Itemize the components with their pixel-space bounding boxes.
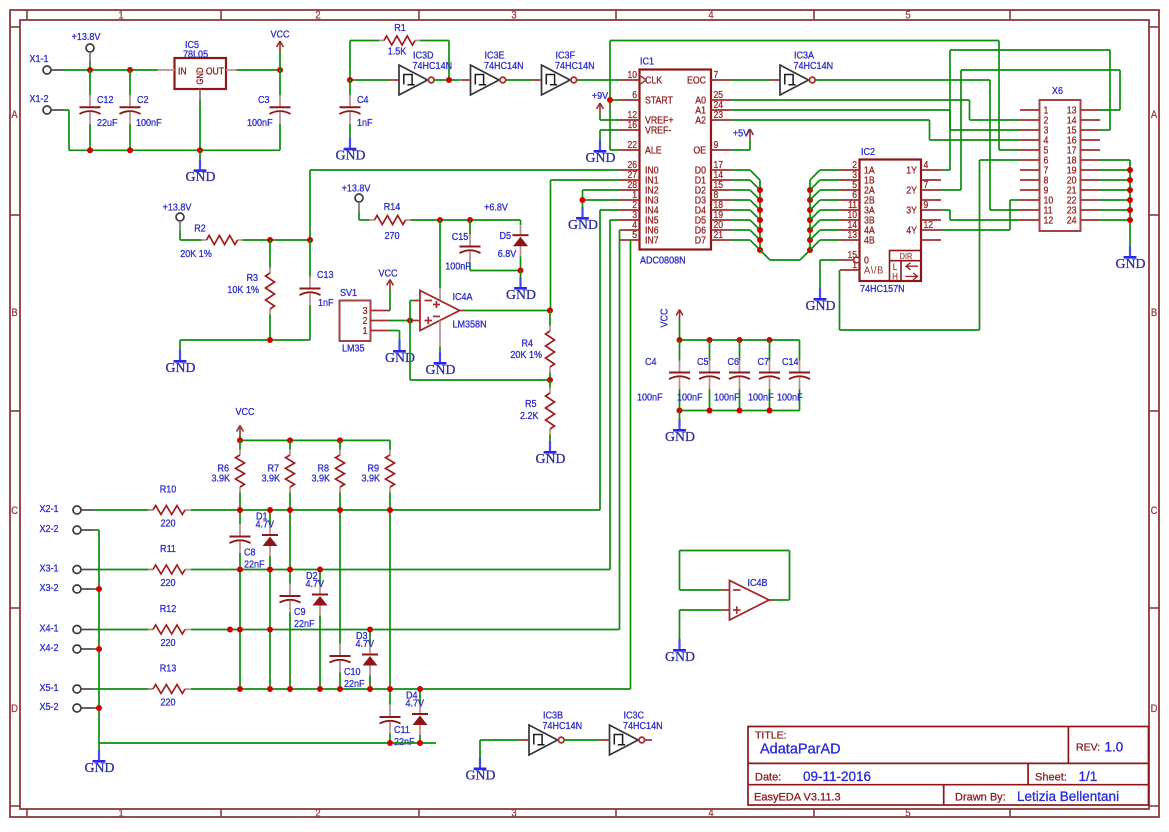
junction bbox=[387, 686, 393, 692]
svg-text:C4: C4 bbox=[645, 356, 657, 368]
junction bbox=[307, 237, 313, 243]
resistor R3 bbox=[269, 240, 271, 268]
IC1 pin 7 EOC bbox=[711, 79, 731, 81]
wire IC3D out bbox=[434, 79, 460, 81]
svg-text:Letizia Bellentani: Letizia Bellentani bbox=[1017, 789, 1119, 804]
svg-text:4.7V: 4.7V bbox=[356, 638, 375, 650]
IC2 pin 13 4B bbox=[840, 239, 860, 241]
wire col270 lower bbox=[269, 570, 271, 690]
svg-text:+13.8V: +13.8V bbox=[163, 202, 192, 214]
svg-text:EasyEDA V3.11.3: EasyEDA V3.11.3 bbox=[754, 792, 841, 804]
ground bbox=[1129, 246, 1131, 257]
X6 pin 18 bbox=[1081, 159, 1101, 161]
SV1 pin 1 bbox=[371, 330, 391, 332]
resistor R11 220 bbox=[93, 569, 152, 571]
wire X2-2 column to gnd bbox=[93, 529, 99, 531]
junction bbox=[807, 217, 813, 223]
terminal X1-1 bbox=[43, 66, 51, 74]
svg-text:74HC14N: 74HC14N bbox=[413, 60, 453, 72]
SV1 pin 3 bbox=[371, 310, 391, 312]
svg-text:12: 12 bbox=[1044, 215, 1054, 227]
terminal X5-2 bbox=[73, 704, 81, 712]
svg-text:SV1: SV1 bbox=[340, 287, 357, 299]
svg-text:1Y: 1Y bbox=[906, 165, 917, 177]
wire IN4 riser bbox=[600, 209, 620, 211]
capacitor C6 (decoupling) bbox=[739, 340, 741, 361]
power flag +13.8V bbox=[86, 44, 94, 52]
svg-text:X6: X6 bbox=[1052, 85, 1064, 97]
wire X6 pins 18-24 to gnd bbox=[1100, 159, 1130, 161]
frame tick bbox=[418, 10, 420, 20]
svg-text:VCC: VCC bbox=[659, 308, 671, 327]
svg-text:R12: R12 bbox=[160, 603, 177, 615]
label X3-1 bbox=[40, 563, 59, 575]
junction bbox=[1127, 217, 1133, 223]
IC2 pin nc bbox=[921, 219, 941, 221]
capacitor C13 bbox=[309, 240, 311, 277]
svg-text:R5: R5 bbox=[525, 398, 537, 410]
svg-text:VCC: VCC bbox=[235, 406, 254, 418]
svg-text:1.5K: 1.5K bbox=[388, 46, 407, 58]
IC1 pin 17 D0 bbox=[711, 169, 731, 171]
svg-text:7: 7 bbox=[924, 179, 929, 190]
svg-text:100nF: 100nF bbox=[136, 117, 162, 129]
svg-text:C15: C15 bbox=[452, 231, 469, 243]
junction bbox=[267, 567, 273, 573]
IC2 pin 11 3A bbox=[840, 209, 860, 211]
IC1 pin 16 VREF- bbox=[620, 129, 640, 131]
wire A0 to X6 pin2 bbox=[731, 99, 970, 101]
junction bbox=[267, 627, 273, 633]
svg-text:9: 9 bbox=[714, 139, 719, 150]
title block bbox=[748, 727, 1149, 806]
svg-text:24: 24 bbox=[1067, 215, 1077, 227]
junction bbox=[227, 627, 233, 633]
frame tick bbox=[10, 805, 20, 807]
capacitor C14 (decoupling) bbox=[799, 340, 801, 361]
svg-text:4B: 4B bbox=[864, 235, 875, 247]
ground bbox=[179, 350, 181, 361]
junction bbox=[417, 740, 423, 746]
svg-text:74HC14N: 74HC14N bbox=[484, 60, 524, 72]
svg-text:D: D bbox=[1151, 703, 1158, 715]
IC2 DIR legend box bbox=[890, 251, 922, 282]
svg-text:H: H bbox=[892, 271, 898, 282]
svg-text:9: 9 bbox=[924, 199, 929, 210]
junction bbox=[518, 268, 524, 274]
power flag bbox=[679, 310, 681, 320]
svg-text:GND: GND bbox=[336, 148, 366, 163]
svg-text:D: D bbox=[11, 703, 18, 715]
wire IC4B +in to gnd bbox=[680, 609, 723, 611]
terminal X2-2 bbox=[73, 526, 81, 534]
svg-text:7: 7 bbox=[714, 69, 719, 80]
wire row bbox=[191, 629, 620, 631]
capacitor C10 bbox=[339, 644, 341, 655]
svg-text:2: 2 bbox=[315, 10, 321, 22]
svg-text:C13: C13 bbox=[317, 269, 334, 281]
IC2 pin nc bbox=[921, 179, 941, 181]
IC2 pin 1 A/B select bbox=[840, 269, 860, 271]
junction bbox=[757, 197, 763, 203]
IC4B -in pin bbox=[722, 589, 730, 591]
IC1 pin 2 IN4 bbox=[620, 209, 640, 211]
X6 pin 15 bbox=[1081, 129, 1101, 131]
ground bbox=[398, 340, 400, 351]
svg-text:LM358N: LM358N bbox=[453, 319, 487, 331]
svg-text:B: B bbox=[11, 307, 17, 319]
wire R6 column bbox=[239, 493, 241, 511]
op IC1 ADC0808N box bbox=[640, 70, 712, 250]
IC2 pin 2 1A bbox=[840, 169, 860, 171]
wire gnd rail (decoupling) bbox=[680, 410, 800, 412]
svg-text:C3: C3 bbox=[258, 94, 270, 106]
inverter IC3A bbox=[780, 65, 809, 95]
junction bbox=[287, 507, 293, 513]
svg-text:CLK: CLK bbox=[645, 75, 663, 87]
capacitor C4 (timing) bbox=[349, 80, 351, 95]
IC4A V- mark bbox=[433, 315, 440, 317]
terminal X5-1 bbox=[73, 685, 81, 693]
svg-text:4: 4 bbox=[924, 159, 929, 170]
wire 1Y to X6 pin15 bbox=[941, 169, 950, 171]
wire IN6 riser bbox=[619, 230, 621, 630]
wire bbox=[199, 100, 201, 150]
IC2 pin nc bbox=[921, 239, 941, 241]
svg-text:GND: GND bbox=[466, 767, 496, 782]
junction bbox=[1127, 207, 1133, 213]
junction bbox=[237, 437, 243, 443]
junction bbox=[197, 147, 203, 153]
label X2-2 bbox=[40, 523, 59, 535]
junction bbox=[417, 686, 423, 692]
svg-text:74HC14N: 74HC14N bbox=[794, 60, 834, 72]
wire col240 lower bbox=[239, 570, 241, 690]
frame row letter bbox=[11, 505, 18, 517]
svg-text:C14: C14 bbox=[782, 356, 799, 368]
svg-text:3.9K: 3.9K bbox=[211, 473, 230, 485]
svg-text:R3: R3 bbox=[246, 272, 258, 284]
svg-text:74HC14N: 74HC14N bbox=[623, 720, 663, 732]
wire VREF- to gnd bbox=[600, 129, 620, 131]
ground bbox=[98, 750, 100, 761]
wire SV1 pin1 to gnd bbox=[390, 330, 400, 332]
op-amp IC4B bbox=[730, 581, 770, 621]
zener diode D3 bbox=[369, 630, 371, 645]
svg-text:3Y: 3Y bbox=[906, 205, 917, 217]
inverter IC3C bbox=[610, 725, 639, 755]
svg-text:EOC: EOC bbox=[687, 75, 706, 87]
IC2 pin 12 4Y bbox=[921, 229, 941, 231]
svg-text:74HC14N: 74HC14N bbox=[543, 720, 583, 732]
IC2 pin 10 3B bbox=[840, 219, 860, 221]
svg-text:4.7V: 4.7V bbox=[306, 578, 325, 590]
X6 pin 24 bbox=[1081, 219, 1101, 221]
capacitor C11 bbox=[389, 705, 391, 716]
junction bbox=[807, 247, 813, 253]
svg-text:IN: IN bbox=[178, 66, 187, 77]
junction bbox=[96, 586, 102, 592]
svg-text:Drawn By:: Drawn By: bbox=[955, 792, 1006, 804]
svg-text:+13.8V: +13.8V bbox=[72, 31, 101, 43]
junction bbox=[367, 686, 373, 692]
svg-text:220: 220 bbox=[160, 577, 176, 589]
svg-text:C12: C12 bbox=[97, 94, 114, 106]
svg-text:1nF: 1nF bbox=[357, 117, 373, 129]
IC4B plus mark bbox=[733, 609, 741, 611]
SV1 pin 2 bbox=[371, 320, 391, 322]
frame tick bbox=[615, 10, 617, 20]
wire R1 top row bbox=[350, 40, 379, 42]
svg-text:Date:: Date: bbox=[755, 772, 781, 784]
op IC2 74HC157N box bbox=[860, 160, 922, 282]
wire A2 to X6 pin4 bbox=[731, 119, 930, 121]
svg-text:C5: C5 bbox=[697, 356, 709, 368]
junction bbox=[737, 408, 743, 414]
wire data bus right bbox=[809, 180, 811, 250]
junction bbox=[347, 77, 353, 83]
X6 pin 13 bbox=[1081, 109, 1101, 111]
wire IN7 riser bbox=[630, 240, 632, 689]
power flag bbox=[749, 129, 751, 139]
wire pullup VCC rail bbox=[240, 439, 390, 441]
X6 pin 21 bbox=[1081, 189, 1101, 191]
wire IN1 riser bbox=[551, 179, 620, 181]
svg-text:X3-1: X3-1 bbox=[40, 563, 59, 575]
svg-text:220: 220 bbox=[160, 697, 176, 709]
svg-text:X2-1: X2-1 bbox=[40, 503, 59, 515]
inverter IC3E bbox=[471, 65, 500, 95]
svg-text:74HC14N: 74HC14N bbox=[555, 60, 595, 72]
svg-text:ADC0808N: ADC0808N bbox=[640, 255, 686, 267]
junction bbox=[757, 227, 763, 233]
frame column number bbox=[708, 10, 714, 22]
IC4A +in pin bbox=[413, 320, 420, 322]
ground bbox=[349, 138, 351, 149]
junction bbox=[707, 408, 713, 414]
IC1 pin 3 IN5 bbox=[620, 219, 640, 221]
junction bbox=[757, 247, 763, 253]
svg-text:5: 5 bbox=[905, 808, 911, 820]
svg-text:OE: OE bbox=[693, 145, 706, 157]
svg-text:IN7: IN7 bbox=[645, 235, 659, 247]
svg-text:3: 3 bbox=[511, 10, 517, 22]
inverter IC3B bbox=[529, 725, 558, 755]
X6 pin 9 bbox=[1020, 189, 1040, 191]
wire IC4A output bbox=[460, 310, 466, 312]
junction bbox=[287, 437, 293, 443]
junction bbox=[127, 147, 133, 153]
terminal X3-1 bbox=[73, 566, 81, 574]
IC1 pin 1 IN3 bbox=[620, 199, 640, 201]
svg-text:09-11-2016: 09-11-2016 bbox=[803, 769, 871, 784]
X6 pin 23 bbox=[1081, 209, 1101, 211]
frame tick bbox=[10, 607, 20, 609]
svg-text:A: A bbox=[11, 109, 17, 121]
capacitor C3 bbox=[279, 70, 281, 95]
svg-text:22nF: 22nF bbox=[294, 618, 315, 630]
svg-text:X5-1: X5-1 bbox=[40, 682, 59, 694]
wire A/B to X6 pin6 bbox=[839, 270, 841, 330]
svg-text:GND: GND bbox=[85, 760, 115, 775]
svg-text:4.7V: 4.7V bbox=[256, 519, 275, 531]
IC1 pin 26 IN0 bbox=[620, 169, 640, 171]
ground bbox=[199, 159, 201, 170]
svg-text:R13: R13 bbox=[160, 663, 177, 675]
svg-text:100nF: 100nF bbox=[637, 392, 663, 404]
terminal X4-1 bbox=[73, 626, 81, 634]
label X3-2 bbox=[40, 582, 59, 594]
frame tick bbox=[10, 410, 20, 412]
svg-text:1.0: 1.0 bbox=[1105, 740, 1124, 755]
X6 pin 12 bbox=[1020, 219, 1040, 221]
wire R7 column bbox=[289, 493, 291, 570]
resistor R6 3.9K bbox=[239, 440, 241, 449]
svg-text:74HC157N: 74HC157N bbox=[860, 283, 905, 295]
junction bbox=[757, 217, 763, 223]
wire VCC rail bbox=[680, 339, 800, 341]
frame tick bbox=[10, 214, 20, 216]
svg-text:4.7V: 4.7V bbox=[406, 698, 425, 710]
junction bbox=[267, 507, 273, 513]
svg-text:OUT: OUT bbox=[206, 66, 224, 77]
wire 3Y to X6 pin12 bbox=[941, 209, 950, 211]
svg-text:GND: GND bbox=[186, 169, 216, 184]
zener diode D2 bbox=[319, 570, 321, 585]
X6 pin 17 bbox=[1081, 149, 1101, 151]
svg-text:+5V: +5V bbox=[733, 128, 750, 140]
X6 pin 4 bbox=[1020, 139, 1040, 141]
svg-text:C10: C10 bbox=[344, 666, 361, 678]
wire C15/D5 gnd row bbox=[470, 270, 521, 272]
junction bbox=[267, 686, 273, 692]
IC4A minus input mark bbox=[425, 300, 433, 302]
wire col290 lower bbox=[289, 630, 291, 690]
terminal X4-2 bbox=[73, 645, 81, 653]
svg-text:3.9K: 3.9K bbox=[361, 473, 380, 485]
IC3C output stub bbox=[645, 739, 652, 741]
IC1 pin 28 IN2 bbox=[620, 189, 640, 191]
wire START net bbox=[610, 99, 620, 101]
X6 pin 22 bbox=[1081, 199, 1101, 201]
zener diode D1 bbox=[269, 510, 271, 525]
svg-text:+6.8V: +6.8V bbox=[484, 202, 508, 214]
svg-text:R10: R10 bbox=[160, 484, 177, 496]
junction bbox=[337, 437, 343, 443]
wire IC5 out to VCC bbox=[237, 69, 281, 71]
svg-text:21: 21 bbox=[714, 229, 724, 240]
IC1 pin 5 IN7 bbox=[620, 239, 640, 241]
svg-text:22: 22 bbox=[627, 139, 637, 150]
junction bbox=[437, 217, 443, 223]
wire IC3E out bbox=[506, 79, 532, 81]
svg-text:GND: GND bbox=[568, 217, 598, 232]
power flag bbox=[599, 103, 601, 113]
X6 pin 2 bbox=[1020, 119, 1040, 121]
wire R9 column bbox=[389, 493, 391, 690]
IC1 pin 10 CLK bbox=[620, 79, 640, 81]
wire IC3A out to X6 pin11 bbox=[815, 79, 990, 81]
junction bbox=[547, 308, 553, 314]
wire R2 node bbox=[243, 239, 311, 241]
resistor R9 3.9K bbox=[389, 440, 391, 449]
svg-text:A\/B: A\/B bbox=[864, 265, 884, 277]
svg-text:GND: GND bbox=[1116, 256, 1146, 271]
X6 pin 19 bbox=[1081, 169, 1101, 171]
IC1 pin 8 D3 bbox=[711, 199, 731, 201]
zener diode D4 bbox=[419, 689, 421, 704]
frame tick bbox=[220, 10, 222, 20]
power flag bbox=[239, 426, 241, 436]
svg-text:+13.8V: +13.8V bbox=[342, 183, 371, 195]
svg-text:C: C bbox=[11, 505, 18, 517]
wire IC2 enable to gnd bbox=[820, 259, 840, 261]
IC1 pin 21 D7 bbox=[711, 239, 731, 241]
junction bbox=[237, 507, 243, 513]
svg-text:1nF: 1nF bbox=[318, 297, 334, 309]
svg-text:ALE: ALE bbox=[645, 145, 662, 157]
X6 pin 14 bbox=[1081, 119, 1101, 121]
wire IN5 riser bbox=[610, 219, 620, 221]
junction bbox=[287, 567, 293, 573]
junction bbox=[127, 67, 133, 73]
X6 pin 6 bbox=[1020, 159, 1040, 161]
svg-text:13: 13 bbox=[847, 229, 857, 240]
svg-text:X1-2: X1-2 bbox=[30, 93, 49, 105]
svg-text:220: 220 bbox=[160, 518, 176, 530]
svg-text:C2: C2 bbox=[137, 94, 149, 106]
svg-text:A: A bbox=[1151, 109, 1157, 121]
svg-text:VCC: VCC bbox=[378, 268, 397, 280]
ground bbox=[678, 419, 680, 430]
svg-text:1/1: 1/1 bbox=[1079, 769, 1098, 784]
svg-text:IC1: IC1 bbox=[640, 56, 654, 68]
power flag +13.8V (R2) bbox=[176, 213, 184, 221]
label X4-2 bbox=[40, 642, 59, 654]
ground bbox=[678, 639, 680, 650]
frame tick bbox=[1009, 10, 1011, 20]
label X5-2 bbox=[40, 701, 59, 713]
svg-text:START: START bbox=[645, 95, 673, 107]
frame row letter bbox=[11, 703, 18, 715]
junction bbox=[737, 337, 743, 343]
svg-text:1: 1 bbox=[118, 10, 124, 22]
wire IC3F out to CLK bbox=[577, 79, 620, 81]
inverter IC3F bbox=[542, 65, 571, 95]
junction bbox=[287, 686, 293, 692]
frame column number bbox=[511, 10, 517, 22]
svg-text:GND: GND bbox=[806, 298, 836, 313]
junction bbox=[807, 207, 813, 213]
op X6 connector box bbox=[1040, 100, 1081, 231]
wire IN2 to gnd bbox=[583, 189, 620, 191]
IC1 pin 20 D6 bbox=[711, 229, 731, 231]
IC2 pin 5 2A bbox=[840, 189, 860, 191]
svg-text:R2: R2 bbox=[194, 223, 206, 235]
svg-text:6.8V: 6.8V bbox=[498, 248, 517, 260]
junction bbox=[767, 408, 773, 414]
junction bbox=[580, 197, 586, 203]
frame tick bbox=[10, 26, 20, 28]
junction bbox=[607, 97, 613, 103]
ground bbox=[819, 288, 821, 299]
svg-text:16: 16 bbox=[627, 119, 637, 130]
frame column number bbox=[315, 10, 321, 22]
svg-text:100nF: 100nF bbox=[748, 392, 774, 404]
svg-text:C8: C8 bbox=[244, 547, 256, 559]
frame column number bbox=[905, 10, 911, 22]
svg-text:22uF: 22uF bbox=[97, 117, 118, 129]
